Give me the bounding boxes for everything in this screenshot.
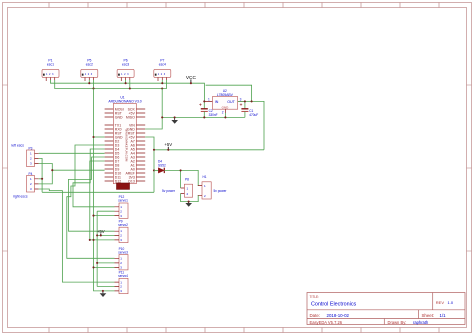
wire U2 gnd pin drop (224, 113, 226, 117)
ground symbol under P8 (185, 202, 192, 207)
power flag VCC (186, 75, 197, 83)
wire 5v power feed H1 (181, 170, 199, 185)
svg-text:H1: H1 (203, 175, 207, 179)
wire P11 pin2 (97, 286, 114, 288)
junction +5V rail (153, 149, 169, 172)
connector P4 right escs (27, 172, 39, 192)
connector P5 esc2 (81, 59, 98, 82)
svg-text:2: 2 (222, 110, 224, 114)
svg-text:TITLE:: TITLE: (310, 295, 320, 299)
ground symbol near U2 (171, 117, 178, 123)
junction servo bus (89, 136, 104, 292)
svg-text:+5V: +5V (97, 229, 105, 234)
svg-text:servo3: servo3 (118, 250, 128, 254)
wire arduino +5V pin feed (145, 137, 154, 192)
capacitor C1 (240, 101, 258, 117)
svg-text:servo1: servo1 (118, 199, 128, 203)
svg-text:REV: REV (436, 300, 445, 305)
svg-text:esc3: esc3 (122, 63, 129, 67)
wire P3 pin2 to +5V net (39, 158, 42, 192)
connector P3 left escs (27, 146, 39, 166)
svg-text:GND: GND (115, 115, 123, 119)
svg-text:right escs: right escs (13, 195, 28, 199)
U1 right pins (125, 107, 145, 183)
wire D7 link (90, 161, 105, 240)
junction P8 ground (188, 201, 190, 203)
wire D6 to servo2 staircase (69, 157, 115, 231)
wire GND rail (55, 80, 167, 89)
svg-text:esc4: esc4 (159, 63, 166, 67)
wire D9 long line (52, 169, 104, 171)
wire P3 pin1 to D5 (39, 152, 105, 154)
wire esc4 +5V pin drop (161, 80, 163, 83)
wire P12 pin2 (97, 210, 114, 212)
junction regulator area (161, 100, 253, 118)
connector P7 esc4 (154, 59, 171, 82)
svg-text:123: 123 (85, 73, 94, 76)
wire D4 to servo1 staircase (73, 149, 115, 207)
svg-text:OUT: OUT (227, 100, 235, 104)
wire +5V long line (42, 191, 154, 193)
svg-text:EasyEDA V5.7.26: EasyEDA V5.7.26 (310, 320, 343, 325)
svg-text:5v power: 5v power (214, 189, 228, 193)
wire P4 pin1 stub (39, 178, 42, 180)
wire regulator ground bus (162, 116, 245, 118)
ground symbol servos (100, 291, 107, 297)
svg-text:left escs: left escs (12, 143, 25, 147)
wire P9 pin3 (90, 239, 115, 241)
junction left escs (41, 169, 53, 180)
svg-text:330nF: 330nF (209, 113, 218, 117)
svg-text:470uF: 470uF (249, 113, 258, 117)
svg-text:Sheet:: Sheet: (422, 313, 435, 318)
svg-text:esc1: esc1 (47, 63, 54, 67)
connector P9 servo2 (115, 219, 129, 242)
svg-text:GND: GND (222, 105, 230, 109)
power flag +5V servo (97, 229, 105, 236)
junction diode out (180, 169, 182, 171)
connector P6 esc3 (117, 59, 134, 82)
wire P3 pin3 branch (39, 164, 53, 184)
wire esc2 gnd pin drop (93, 80, 95, 89)
svg-text:L7805ABV: L7805ABV (217, 93, 234, 97)
svg-text:P8: P8 (185, 177, 189, 181)
wire P10 pin3 (94, 266, 115, 268)
wire +5V servo vertical (96, 211, 98, 286)
wire gnd vertical main (94, 89, 115, 291)
connector H1 5v power (198, 175, 228, 199)
svg-text:123: 123 (46, 73, 55, 76)
svg-text:raphrath: raphrath (413, 320, 429, 325)
wire esc3 +5V pin drop (125, 80, 127, 83)
wire esc3 gnd pin drop (129, 80, 131, 89)
svg-text:servo4: servo4 (118, 274, 128, 278)
svg-text:Control Electronics: Control Electronics (311, 302, 357, 308)
wire U2 out net (238, 101, 264, 149)
wire gnd to arduino left pin (94, 136, 105, 138)
voltage regulator U2 L7805ABV (204, 89, 245, 115)
wire P8 H1 ground (181, 193, 199, 201)
connector P12 servo1 (115, 195, 129, 218)
svg-text:5v power: 5v power (162, 189, 176, 193)
svg-text:Date:: Date: (310, 313, 321, 318)
svg-text:1.0: 1.0 (448, 300, 454, 305)
wire esc2 +5V pin drop (88, 80, 90, 83)
svg-text:1: 1 (208, 98, 210, 102)
wire D3 to servo3 staircase (67, 145, 115, 258)
svg-text:+5V: +5V (164, 142, 172, 147)
junction esc rails (88, 82, 192, 89)
connector P8 5v power (162, 177, 193, 197)
wire P10 pin2 (97, 262, 114, 264)
wire P12 pin3 (94, 215, 115, 217)
wire P9 pin2 (97, 234, 114, 236)
wire gnd rail to arduino gnd right (145, 89, 162, 130)
wire out to top link (206, 85, 252, 101)
U1 left pins (105, 107, 124, 183)
svg-text:MISO: MISO (126, 115, 135, 119)
op-amp U1 Arduino Nano (108, 96, 141, 184)
svg-text:SS52: SS52 (158, 163, 166, 167)
svg-text:123: 123 (158, 73, 167, 76)
connector P1 esc1 (42, 59, 59, 82)
svg-text:2018-10-02: 2018-10-02 (327, 313, 350, 318)
diode D4 SS52 (154, 159, 181, 173)
power flag +5V mid (164, 142, 172, 150)
svg-text:1/1: 1/1 (440, 313, 447, 318)
connector P10 servo3 (115, 247, 129, 270)
connector P11 servo4 (115, 271, 129, 294)
svg-text:esc2: esc2 (86, 63, 93, 67)
wire 5v power feed P8 (180, 170, 182, 188)
wire VCC rail top (51, 80, 205, 101)
svg-text:Drawn By:: Drawn By: (388, 320, 407, 325)
U1 USB connector block (117, 183, 130, 189)
capacitor C2 (199, 101, 217, 117)
wire P4 pin3 to servo4 (39, 189, 115, 282)
title block (307, 293, 465, 325)
svg-text:123: 123 (121, 73, 130, 76)
svg-text:IN: IN (215, 100, 219, 104)
svg-text:servo2: servo2 (118, 223, 128, 227)
wire +5V rail mid (154, 149, 264, 151)
